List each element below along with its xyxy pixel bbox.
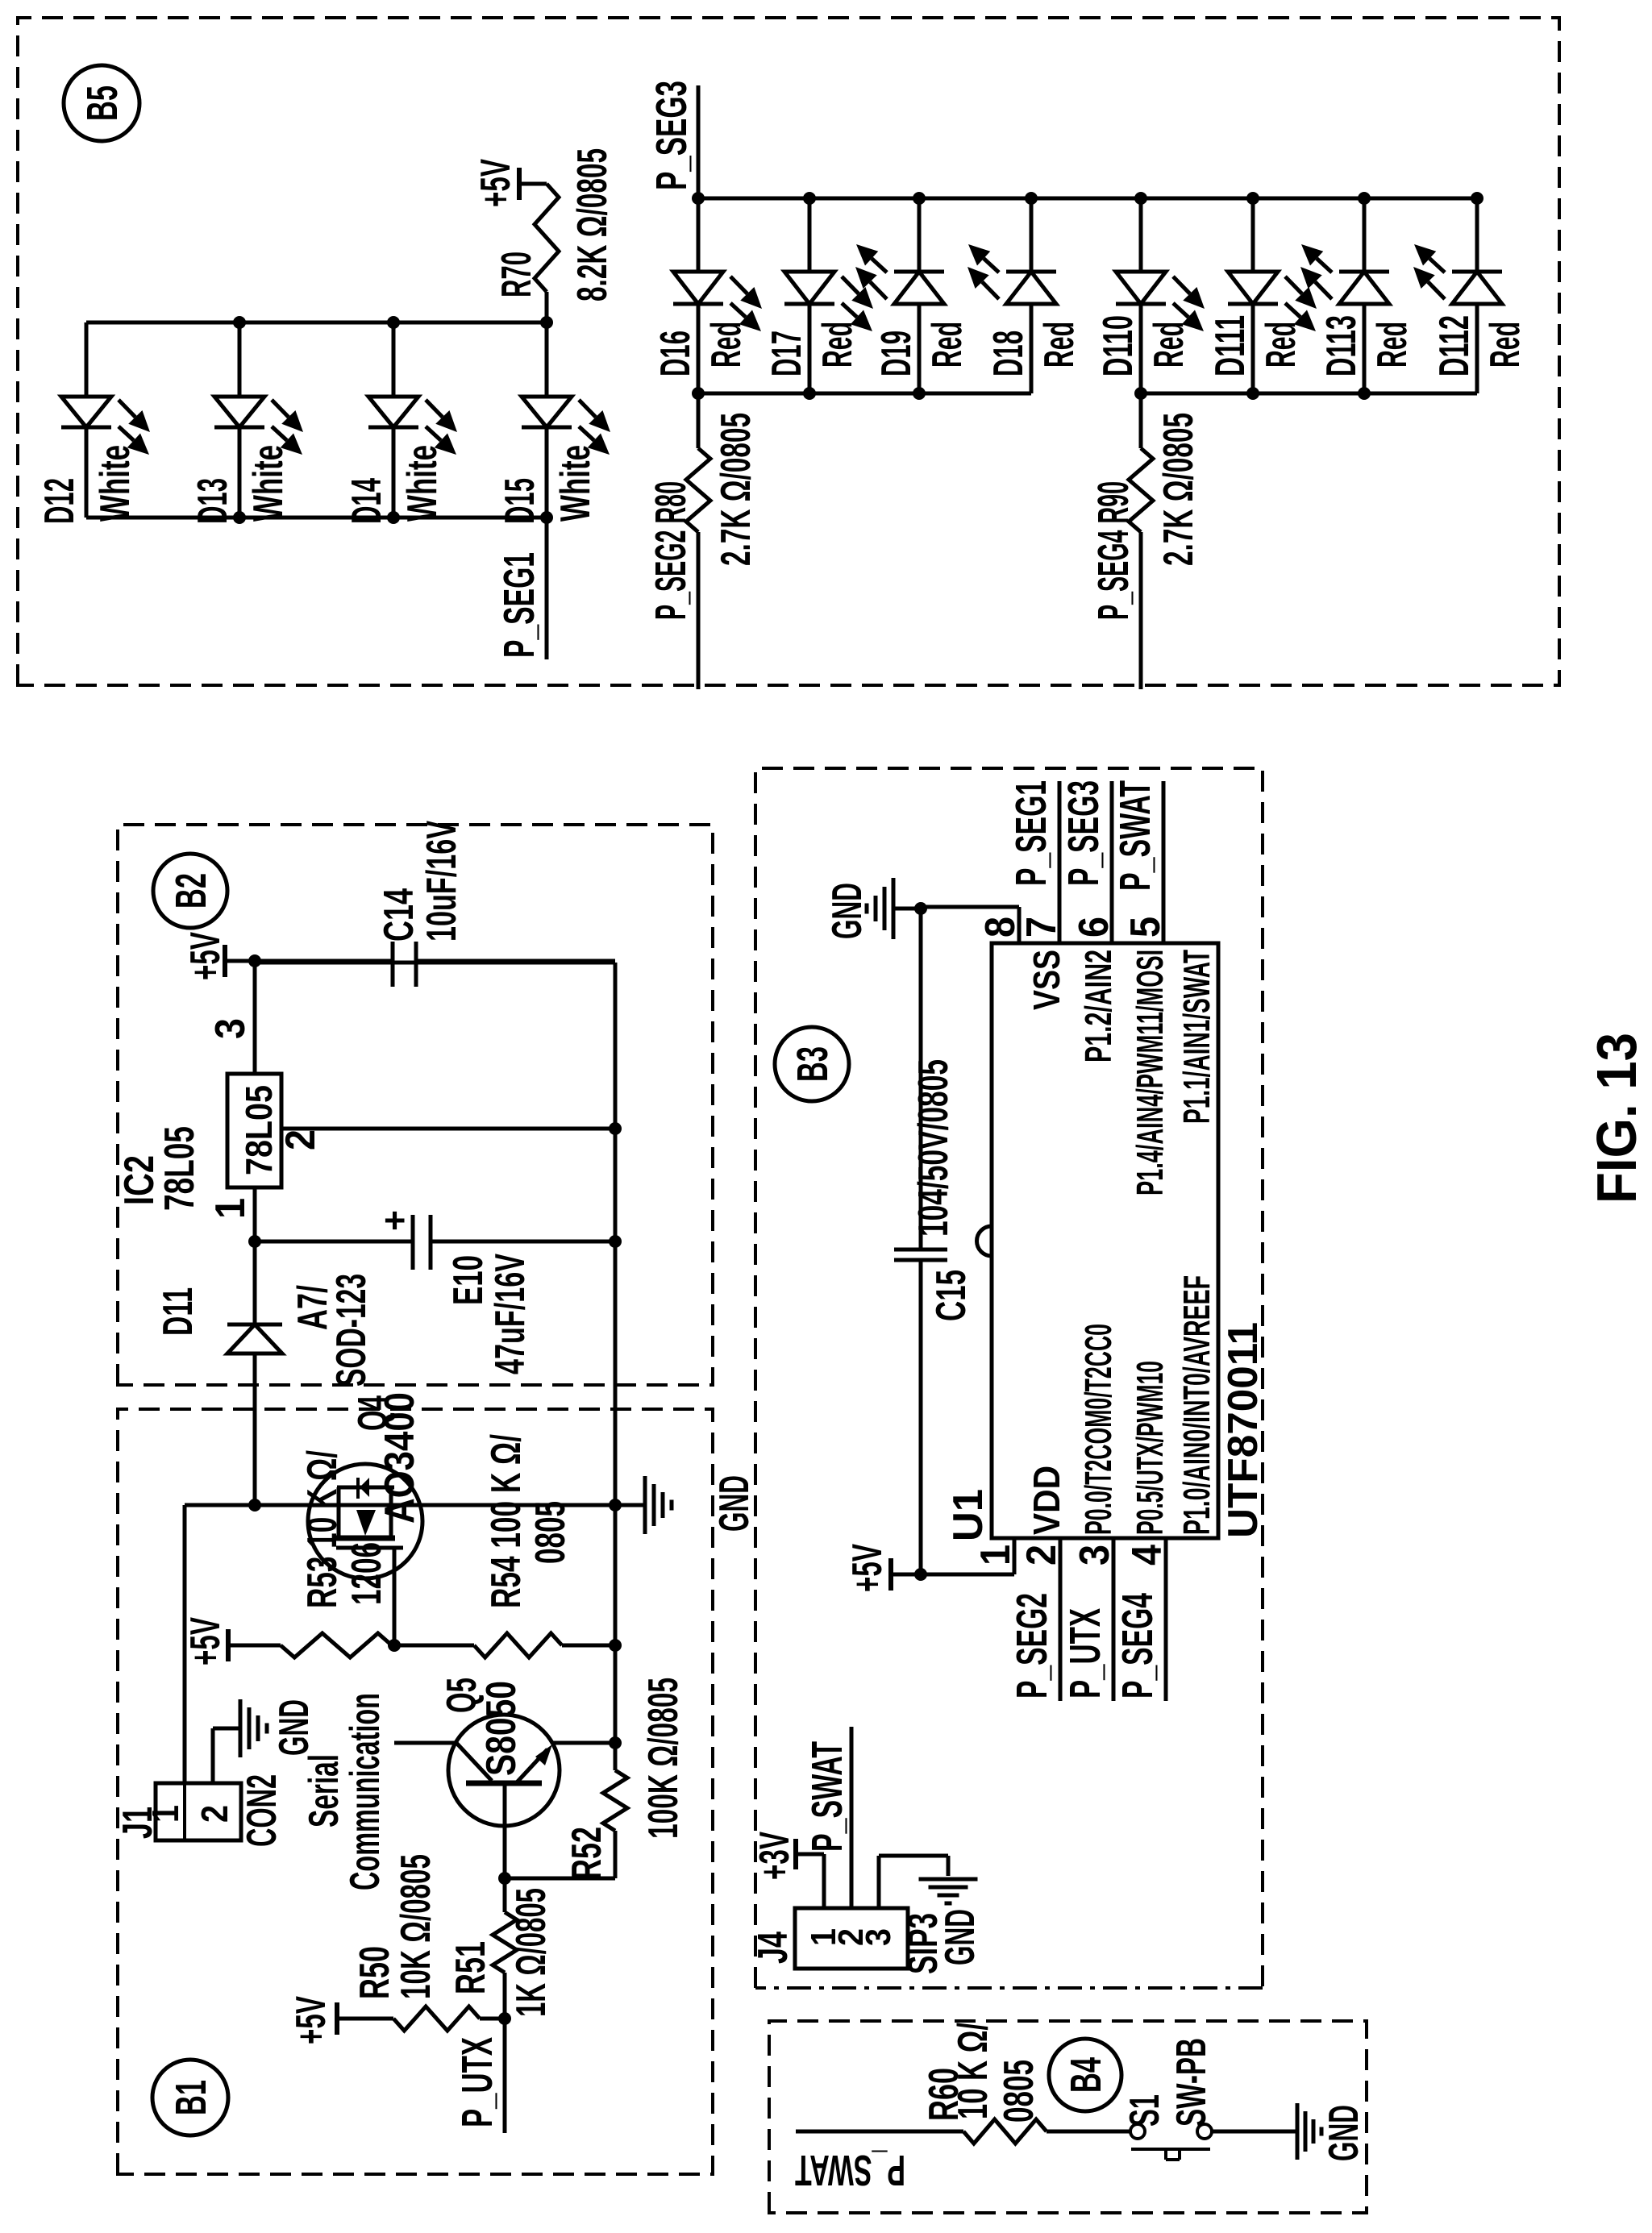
svg-text:B3: B3 [789, 1046, 837, 1082]
LED D19 Red [918, 304, 922, 393]
label B2 circle [153, 854, 227, 928]
LED D16 Red [697, 304, 701, 393]
net P_UTX [503, 2019, 507, 2133]
svg-text:3: 3 [859, 1928, 898, 1946]
svg-text:Red: Red [1036, 322, 1083, 368]
svg-text:P0.0/T2COM0/T2CC0: P0.0/T2COM0/T2CC0 [1077, 1324, 1119, 1535]
power +5V (R70) [519, 182, 547, 186]
regulator IC2 78L05 box [227, 1074, 281, 1187]
svg-text:Red: Red [924, 322, 971, 368]
svg-text:J1: J1 [114, 1807, 161, 1839]
transistor Q5 S8050 NPN [448, 1715, 560, 1826]
svg-text:R50: R50 [352, 1946, 398, 1999]
node rail P_SEG3 (red LED anode rail) [698, 197, 1477, 201]
svg-text:Communication: Communication [342, 1693, 389, 1890]
svg-text:+3V: +3V [751, 1832, 798, 1880]
wire Q4 drain vertical [185, 1503, 615, 1507]
resistor R60 [963, 2119, 1047, 2144]
svg-text:+: + [373, 1210, 415, 1231]
svg-text:10K Ω/0805: 10K Ω/0805 [393, 1854, 439, 1999]
net P_SEG4 (pin4) [1164, 1538, 1168, 1701]
svg-text:8: 8 [977, 917, 1024, 938]
svg-text:+5V: +5V [844, 1544, 891, 1592]
svg-text:2: 2 [1018, 1545, 1065, 1566]
block B3 dashed box [755, 768, 1263, 1988]
node +5V dot [248, 954, 261, 967]
wire corner +5Vrail to C14 [255, 961, 615, 965]
svg-text:P1.0/AIN0/INT0/AVREEF: P1.0/AIN0/INT0/AVREEF [1176, 1275, 1217, 1535]
svg-text:5: 5 [1122, 917, 1169, 938]
svg-text:GND: GND [824, 883, 871, 939]
svg-text:B2: B2 [167, 873, 215, 909]
svg-text:10 K Ω/: 10 K Ω/ [950, 2023, 997, 2119]
resistor R53 [228, 1644, 281, 1648]
svg-text:SOD-123: SOD-123 [328, 1274, 375, 1387]
power +5V (R50) [335, 2002, 339, 2035]
resistor R54 [394, 1644, 474, 1648]
svg-text:+5V: +5V [182, 932, 229, 980]
net P_SEG3 [697, 85, 701, 198]
power +5V (B2) [223, 945, 227, 977]
svg-text:104/50V/0805: 104/50V/0805 [910, 1059, 957, 1237]
svg-text:J4: J4 [750, 1932, 797, 1964]
net P_SEG1 [545, 518, 549, 659]
svg-text:GND: GND [1321, 2105, 1367, 2161]
svg-text:2: 2 [193, 1805, 235, 1823]
wire J4 pin3 to GND [877, 1856, 881, 1908]
wire to J1 pin1 [183, 1505, 187, 1783]
svg-text:VDD: VDD [1026, 1466, 1067, 1535]
LED D113 Red [1363, 304, 1367, 393]
LED D110 Red [1139, 304, 1143, 393]
svg-text:0805: 0805 [527, 1501, 574, 1564]
svg-text:S1: S1 [1121, 2094, 1168, 2127]
svg-text:D113: D113 [1318, 315, 1365, 376]
switch S1 SW-PB [1130, 2124, 1145, 2139]
node emitter dot [609, 1736, 622, 1749]
svg-text:P_SEG3: P_SEG3 [647, 81, 696, 190]
diode D11 [253, 1354, 257, 1505]
svg-text:Red: Red [1369, 322, 1416, 368]
svg-text:+5V: +5V [288, 1996, 335, 2044]
svg-text:+5V: +5V [472, 159, 519, 207]
connector J4 SIP3 box [795, 1908, 908, 1969]
svg-text:8.2K Ω/0805: 8.2K Ω/0805 [569, 148, 616, 301]
node base dot [498, 1872, 511, 1885]
svg-text:D16: D16 [652, 331, 699, 376]
node +5V dot (B3) [914, 1568, 927, 1581]
svg-text:0805: 0805 [996, 2060, 1042, 2123]
wire +5V vertical with C14 [255, 959, 393, 963]
LED D12 White [85, 427, 89, 518]
power +3V (J4 pin1) [822, 1854, 826, 1908]
power +5V (R53) [226, 1629, 231, 1661]
wire pin8 [1017, 907, 1022, 943]
ground (S1) [1296, 2103, 1300, 2160]
ground (J4) [919, 1877, 978, 1882]
svg-text:D18: D18 [985, 331, 1032, 376]
svg-text:C15: C15 [928, 1270, 975, 1321]
svg-text:P_SEG4 R90: P_SEG4 R90 [1089, 481, 1138, 620]
svg-text:P_SEG1: P_SEG1 [495, 552, 543, 658]
svg-text:VSS: VSS [1026, 950, 1067, 1010]
svg-text:U1: U1 [945, 1489, 992, 1541]
svg-text:UTF870011: UTF870011 [1220, 1322, 1267, 1538]
label B3 circle [775, 1027, 849, 1101]
svg-text:D19: D19 [873, 331, 920, 376]
svg-text:1: 1 [972, 1545, 1019, 1566]
resistor R80 [697, 532, 701, 689]
svg-text:White: White [552, 445, 599, 522]
svg-text:Red: Red [1258, 322, 1305, 368]
svg-text:Red: Red [814, 322, 861, 368]
svg-text:E10: E10 [445, 1255, 492, 1305]
power +5V (U1 pin1) [888, 1558, 893, 1591]
svg-text:White: White [399, 445, 446, 522]
block B2 dashed box [118, 825, 713, 1385]
svg-text:2: 2 [277, 1129, 324, 1150]
svg-text:D12: D12 [36, 478, 83, 524]
LED D17 Red [808, 304, 812, 393]
svg-text:2.7K Ω/0805: 2.7K Ω/0805 [713, 413, 759, 566]
ground (J1) [239, 1699, 243, 1757]
LED D15 White [545, 427, 549, 518]
capacitor C15 [919, 1260, 923, 1574]
wire pin1 of IC2 [253, 1187, 257, 1241]
node R54 dot [609, 1639, 622, 1652]
svg-text:CON2: CON2 [239, 1774, 285, 1847]
svg-text:1206: 1206 [343, 1542, 390, 1605]
net P_UTX (pin3) [1112, 1538, 1116, 1701]
svg-text:AO3400: AO3400 [377, 1392, 423, 1524]
svg-text:P0.5/UTX/PWM10: P0.5/UTX/PWM10 [1129, 1361, 1171, 1535]
svg-text:78L05: 78L05 [156, 1126, 203, 1211]
svg-text:D11: D11 [155, 1287, 202, 1336]
label B4 circle [1049, 2039, 1121, 2111]
svg-text:D110: D110 [1095, 315, 1142, 376]
wire E10 branch [255, 1240, 413, 1244]
svg-text:1: 1 [207, 1198, 254, 1219]
LED D14 White [392, 427, 396, 518]
node rail dots B2 [609, 1122, 622, 1135]
ground (B3 top) [893, 907, 921, 911]
transistor Q4 AO3400 MOSFET [308, 1464, 422, 1578]
svg-text:Serial: Serial [301, 1754, 347, 1828]
svg-text:GND: GND [711, 1475, 758, 1532]
node pin1 dot [248, 1235, 261, 1248]
svg-text:P_SWAT: P_SWAT [795, 2146, 905, 2194]
svg-text:10uF/16V: 10uF/16V [418, 821, 465, 942]
svg-text:R52: R52 [564, 1827, 610, 1880]
svg-text:SW-PB: SW-PB [1168, 2038, 1215, 2127]
svg-text:P_SEG2 R80: P_SEG2 R80 [647, 481, 695, 620]
ground (Q4 source) [615, 1503, 645, 1507]
IC U1 UTF870011 box [992, 943, 1218, 1538]
node gate dot [388, 1639, 401, 1652]
svg-text:White: White [92, 445, 139, 522]
node cathode rail (white LEDs) [86, 516, 547, 520]
net P_SWAT (B4) [796, 2130, 963, 2134]
svg-text:Red: Red [1146, 322, 1192, 368]
svg-text:P_SWAT: P_SWAT [803, 1741, 851, 1852]
label B5 circle [64, 65, 139, 141]
junction dots white rails [233, 316, 246, 329]
svg-text:P_SEG4: P_SEG4 [1113, 1593, 1162, 1699]
svg-text:D112: D112 [1431, 315, 1478, 376]
wire base [503, 1973, 507, 2019]
wire pin2 of IC2 [281, 1127, 615, 1131]
svg-text:P_UTX: P_UTX [1061, 1608, 1109, 1699]
svg-text:6: 6 [1071, 917, 1117, 938]
block B4 dashed box [769, 2021, 1367, 2213]
svg-text:S8050: S8050 [478, 1681, 525, 1776]
svg-text:B4: B4 [1062, 2057, 1110, 2093]
net P_SEG3 (pin6) [1110, 781, 1114, 943]
capacitor C14 [391, 942, 395, 987]
label B1 circle [152, 2060, 228, 2135]
svg-text:GND: GND [271, 1699, 318, 1756]
svg-text:4: 4 [1124, 1545, 1171, 1566]
node R50/R51 dot [498, 2012, 511, 2025]
net P_SWAT (pin5) [1162, 781, 1166, 943]
resistor R50 [337, 2017, 393, 2021]
resistor R90 [1139, 532, 1143, 689]
node rail seg2 (red group1 cathode rail) [698, 392, 1031, 396]
svg-text:Red: Red [1482, 322, 1529, 368]
svg-text:D15: D15 [497, 478, 543, 524]
svg-text:P_SEG1: P_SEG1 [1007, 780, 1055, 886]
svg-text:P_SEG2: P_SEG2 [1008, 1593, 1056, 1699]
wire pin1 [921, 1573, 1014, 1577]
svg-text:R70: R70 [493, 252, 540, 297]
node GND dot (B3) [914, 902, 927, 915]
node Q4 drain dot [248, 1499, 261, 1512]
svg-text:C14: C14 [376, 888, 422, 942]
connector J1 CON2 box [156, 1783, 241, 1840]
net P_SEG2 (pin2) [1059, 1538, 1063, 1701]
resistor R70 [545, 292, 549, 322]
block B5 dashed box [18, 18, 1559, 685]
svg-text:P1.4/AIN4/PWM11/MOSI: P1.4/AIN4/PWM11/MOSI [1129, 950, 1171, 1196]
svg-text:P1.1/AIN1/SWAT: P1.1/AIN1/SWAT [1176, 950, 1217, 1124]
wire pin3 of IC2 [253, 961, 257, 1074]
LED D111 Red [1251, 304, 1255, 393]
svg-text:1K Ω/0805: 1K Ω/0805 [508, 1888, 555, 2017]
wire J1 pin2 to GND [211, 1728, 215, 1783]
block B1 dashed box [118, 1409, 713, 2174]
capacitor E10 electrolytic [411, 1215, 415, 1270]
resistor R52 [603, 1770, 627, 1831]
svg-text:R54 100 K Ω/: R54 100 K Ω/ [483, 1434, 530, 1608]
svg-text:3: 3 [207, 1018, 254, 1039]
junction dots red rails [692, 192, 705, 205]
svg-text:GND: GND [937, 1909, 984, 1965]
node anode rail (white LEDs) [86, 321, 547, 325]
svg-text:D14: D14 [343, 478, 390, 524]
svg-text:R53 10 K Ω/: R53 10 K Ω/ [299, 1450, 346, 1608]
svg-text:+5V: +5V [182, 1617, 229, 1665]
svg-text:D13: D13 [189, 478, 236, 524]
svg-text:P_UTX: P_UTX [453, 2037, 501, 2127]
svg-text:7: 7 [1018, 917, 1065, 938]
svg-text:FIG. 13: FIG. 13 [1585, 1033, 1648, 1204]
svg-text:Red: Red [703, 322, 750, 368]
net P_SEG1 (pin7) [1058, 781, 1062, 943]
svg-text:B5: B5 [78, 85, 127, 121]
svg-text:47uF/16V: 47uF/16V [487, 1254, 534, 1374]
svg-text:100K Ω/0805: 100K Ω/0805 [640, 1678, 687, 1839]
svg-text:P_SEG3: P_SEG3 [1059, 780, 1108, 886]
svg-text:D17: D17 [764, 331, 810, 376]
svg-text:White: White [245, 445, 292, 522]
svg-text:P1.2/AIN2: P1.2/AIN2 [1077, 950, 1119, 1062]
svg-text:3: 3 [1072, 1545, 1118, 1566]
svg-text:R51: R51 [447, 1941, 494, 1994]
svg-text:B1: B1 [167, 2080, 215, 2115]
resistor R51 [493, 1912, 517, 1973]
node Q4 source dot / ground [609, 1499, 622, 1512]
LED D18 Red [1030, 304, 1034, 393]
wire ground rail [614, 963, 618, 1770]
net P_SWAT (J4 pin2) [850, 1727, 854, 1908]
LED D13 White [238, 427, 242, 518]
svg-text:D111: D111 [1207, 315, 1254, 376]
svg-text:2.7K Ω/0805: 2.7K Ω/0805 [1155, 413, 1202, 566]
LED D112 Red [1475, 304, 1479, 393]
svg-text:78L05: 78L05 [238, 1085, 280, 1175]
node rail seg4 (red group2 cathode rail) [1141, 392, 1477, 396]
svg-text:P_SWAT: P_SWAT [1111, 780, 1159, 891]
